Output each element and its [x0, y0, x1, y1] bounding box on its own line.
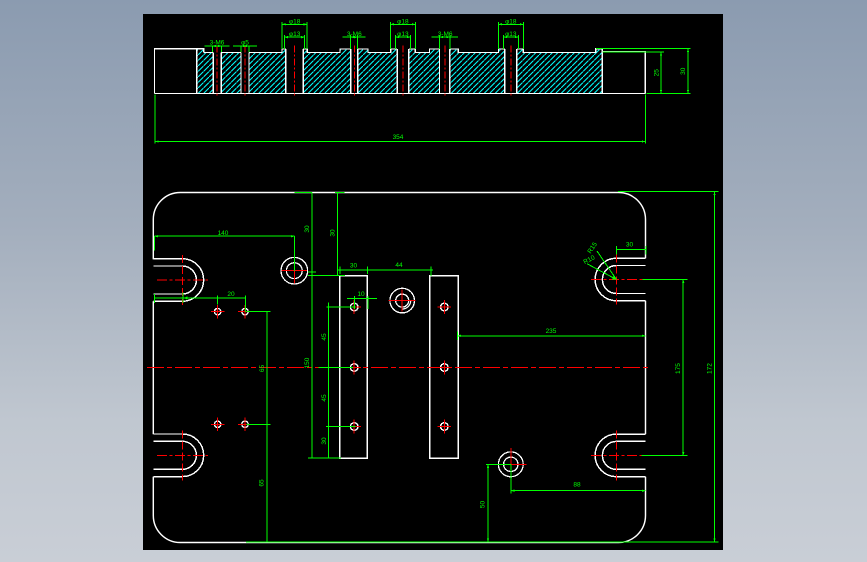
vertical chain dimension at x=267: [247, 312, 271, 542]
U-slot top-right: [595, 258, 645, 301]
hole H8: [438, 300, 452, 314]
hole H2: [238, 305, 252, 319]
svg-text:φ13: φ13: [505, 31, 517, 38]
svg-text:30: 30: [304, 225, 311, 233]
svg-text:45: 45: [321, 333, 328, 341]
dimension 88: [511, 464, 646, 493]
centerline of slot 7: [510, 46, 512, 98]
svg-text:44: 44: [395, 262, 403, 269]
dimension counterbore at x=295: [282, 18, 307, 48]
svg-text:10: 10: [357, 291, 365, 298]
svg-text:20: 20: [227, 291, 235, 298]
vertical dimension 30 at x=312: [295, 192, 346, 458]
dimension counterbore at x=511: [499, 18, 524, 48]
hole slot 1 in section: [213, 53, 222, 94]
counterbored hole C2: [389, 288, 416, 313]
hole H5: [347, 300, 361, 314]
hole H6: [347, 361, 361, 375]
svg-text:φ18: φ18: [397, 18, 409, 25]
hole H9: [438, 361, 452, 375]
dimension slot2: [233, 40, 257, 53]
svg-text:150: 150: [304, 357, 311, 368]
hole slot 3 in section: [285, 49, 304, 94]
main horizontal centerline: [147, 367, 651, 369]
centerline of slot 4: [353, 46, 355, 98]
vertical dimension 30 at x=337: [330, 192, 345, 275]
svg-text:88: 88: [573, 482, 581, 489]
crosshair left U-slot: [157, 430, 208, 480]
bottom extension line: [246, 541, 719, 543]
hole slot 5 in section: [397, 49, 410, 94]
vertical dimension 50 at x=488: [480, 464, 512, 542]
hole slot 4 in section: [350, 49, 358, 94]
svg-text:65: 65: [259, 365, 266, 373]
radius leader R10: [582, 254, 616, 280]
groove pad 2: [430, 276, 458, 458]
svg-text:3-M6: 3-M6: [347, 31, 362, 38]
svg-text:172: 172: [707, 363, 714, 374]
U-slot top-left: [153, 259, 203, 302]
svg-text:30: 30: [330, 229, 337, 237]
plate outline (plan view): [153, 193, 645, 543]
dimension 10 hole to groove edge: [347, 291, 377, 309]
vertical dimension 175 at x=683: [642, 280, 688, 456]
svg-text:235: 235: [546, 328, 557, 335]
svg-text:50: 50: [480, 501, 487, 509]
dimension 20 hole columns: [154, 291, 245, 312]
svg-text:354: 354: [393, 134, 404, 141]
section view: hatched cross-section bar: [197, 49, 603, 94]
svg-text:φ5: φ5: [241, 40, 249, 47]
section bar outline: [155, 49, 646, 94]
U-slot bottom-left: [153, 434, 203, 477]
hole slot 6 in section: [439, 49, 451, 94]
svg-text:30: 30: [626, 242, 634, 249]
hole slot 7 in section: [504, 49, 517, 94]
crosshair right U-slot: [591, 430, 643, 480]
hole H3: [211, 418, 225, 432]
svg-text:30: 30: [321, 437, 328, 445]
counterbored hole C1: [281, 257, 308, 284]
vertical chain dimension at x=328: [319, 303, 356, 459]
svg-text:25: 25: [654, 69, 661, 77]
dimension 30 top right: [616, 242, 645, 255]
dimension 30 (right of section): [596, 49, 691, 94]
crosshair left U-slot: [157, 255, 208, 305]
svg-text:30: 30: [680, 67, 687, 75]
svg-text:175: 175: [675, 363, 682, 374]
vertical dimension 172 at x=714: [618, 192, 719, 542]
centerline of slot 5: [402, 46, 404, 98]
radius leader R15: [587, 241, 617, 280]
centerline of slot 6: [444, 46, 446, 98]
dimension 30 / 44 between grooves: [338, 262, 433, 276]
svg-text:45: 45: [321, 394, 328, 402]
groove pad 1: [340, 276, 368, 458]
crosshair right U-slot: [591, 255, 660, 305]
dimension counterbore at x=403: [391, 18, 416, 48]
svg-text:φ18: φ18: [289, 18, 301, 25]
hole H1: [211, 305, 225, 319]
svg-text:φ13: φ13: [397, 31, 409, 38]
svg-text:φ13: φ13: [289, 31, 301, 38]
svg-text:φ18: φ18: [505, 18, 517, 25]
dimension 354 overall length: [155, 95, 645, 144]
centerline of slot 2: [244, 46, 246, 98]
hole H4: [238, 418, 252, 432]
svg-text:140: 140: [218, 230, 229, 237]
svg-text:30: 30: [350, 262, 358, 269]
U-slot bottom-right: [595, 434, 645, 477]
dimension 235: [458, 328, 646, 340]
hole slot 2 in section: [240, 53, 249, 94]
dimension tapped hole at x=354: [343, 31, 366, 49]
svg-text:65: 65: [259, 479, 266, 487]
dimension 3-M6 slot1: [205, 40, 230, 53]
drawing canvas: [143, 14, 723, 550]
counterbored hole C3: [495, 448, 526, 481]
dimension 140: [155, 230, 295, 271]
svg-text:3-M6: 3-M6: [210, 40, 225, 47]
dimension tapped hole at x=445: [432, 31, 458, 49]
hole H10: [438, 420, 452, 434]
dimension 25 (right of section): [603, 52, 691, 93]
centerline of slot 3: [294, 46, 296, 98]
centerline of slot 1: [216, 46, 218, 98]
svg-text:3-M6: 3-M6: [438, 31, 453, 38]
hole H7: [347, 420, 361, 434]
